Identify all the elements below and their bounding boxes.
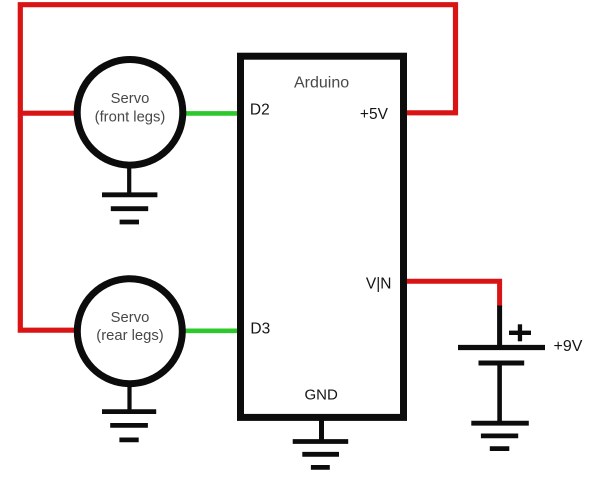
svg-text:GND: GND [305, 387, 339, 404]
svg-text:(rear legs): (rear legs) [96, 328, 163, 344]
servo M2 (rear legs) circle [77, 279, 182, 384]
svg-text:+9V: +9V [554, 338, 583, 355]
wire battery negative lead [497, 363, 502, 423]
label Servo (rear legs) [96, 310, 163, 344]
servo M1 (front legs) circle [77, 60, 183, 166]
ground (rear servo) [102, 412, 156, 440]
wire rear servo ground stem [127, 383, 131, 412]
svg-text:Arduino: Arduino [294, 75, 349, 92]
label Servo (front legs) [95, 91, 166, 126]
svg-text:D2: D2 [250, 101, 270, 118]
svg-text:Servo: Servo [111, 310, 150, 326]
wire front servo ground stem [127, 165, 131, 195]
svg-text:Servo: Servo [111, 91, 150, 107]
ground (battery) [471, 423, 529, 448]
plus sign of battery polarity [509, 324, 531, 341]
svg-text:(front legs): (front legs) [95, 110, 166, 126]
wire VIN red from Arduino VIN pin to battery positive [406, 281, 500, 307]
wire black battery positive lead [497, 306, 502, 348]
wire Arduino GND stem [319, 418, 324, 442]
op-amp U1 Arduino box [241, 56, 404, 417]
wire green servo signal to D3 [184, 328, 240, 333]
svg-text:+5V: +5V [360, 106, 389, 123]
svg-text:V|N: V|N [366, 275, 392, 292]
battery BT1 bottom plate (negative) [479, 361, 525, 366]
ground (Arduino GND) [293, 442, 349, 468]
wire green servo signal to D2 [184, 111, 240, 116]
wire red branch to front servo (node at left rail) [18, 111, 75, 116]
svg-text:D3: D3 [250, 320, 270, 337]
wire +5V red loop from Arduino +5V pin over the top and down the left side to rear servo [20, 5, 455, 331]
ground (front servo) [102, 195, 157, 222]
battery BT1 top plate (positive) [458, 345, 545, 350]
